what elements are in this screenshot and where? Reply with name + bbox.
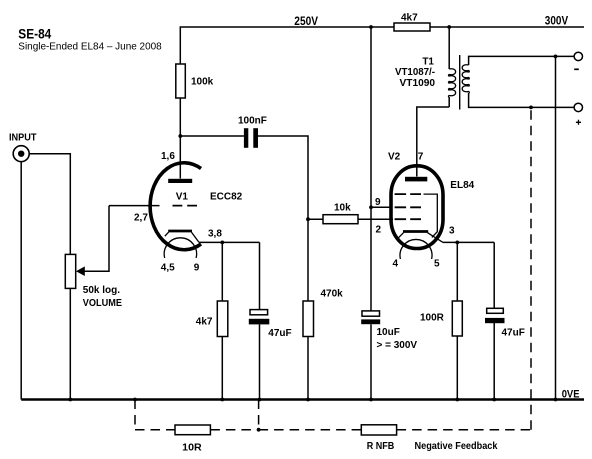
svg-text:VOLUME: VOLUME (83, 298, 122, 309)
svg-text:100k: 100k (191, 77, 214, 88)
svg-text:> = 300V: > = 300V (377, 340, 418, 351)
svg-text:47uF: 47uF (502, 327, 525, 338)
svg-text:100nF: 100nF (238, 115, 267, 126)
svg-text:47uF: 47uF (268, 328, 291, 339)
svg-text:10k: 10k (334, 203, 351, 214)
svg-text:1,6: 1,6 (161, 151, 175, 162)
svg-text:2,7: 2,7 (134, 212, 148, 223)
svg-text:VT1090: VT1090 (400, 78, 436, 89)
svg-text:300V: 300V (545, 14, 568, 28)
svg-text:4: 4 (393, 258, 399, 269)
svg-text:2: 2 (376, 224, 382, 235)
svg-text:3: 3 (449, 225, 455, 236)
svg-text:4k7: 4k7 (401, 13, 418, 24)
svg-text:ECC82: ECC82 (210, 191, 243, 202)
svg-text:R NFB: R NFB (367, 440, 395, 452)
svg-text:50k log.: 50k log. (83, 285, 120, 296)
svg-text:Negative Feedback: Negative Feedback (415, 440, 498, 452)
svg-text:INPUT: INPUT (9, 133, 37, 144)
svg-text:250V: 250V (294, 14, 318, 28)
svg-text:V2: V2 (388, 151, 401, 162)
svg-text:4,5: 4,5 (161, 262, 175, 273)
svg-text:5: 5 (434, 258, 440, 269)
svg-text:100R: 100R (420, 313, 445, 324)
svg-text:7: 7 (418, 151, 424, 162)
svg-text:VT1087/-: VT1087/- (395, 67, 435, 78)
svg-text:0VE: 0VE (562, 388, 580, 400)
svg-text:3,8: 3,8 (208, 229, 222, 240)
svg-text:470k: 470k (321, 289, 344, 300)
svg-text:9: 9 (375, 197, 381, 208)
svg-text:10R: 10R (182, 441, 202, 453)
svg-text:4k7: 4k7 (196, 316, 213, 327)
svg-text:SE-84: SE-84 (18, 26, 51, 42)
svg-text:Single-Ended EL84 – June 2008: Single-Ended EL84 – June 2008 (18, 42, 162, 53)
svg-text:T1: T1 (422, 56, 434, 67)
svg-text:EL84: EL84 (450, 180, 474, 191)
svg-text:V1: V1 (176, 191, 189, 202)
svg-text:10uF: 10uF (377, 327, 400, 338)
svg-text:9: 9 (194, 262, 200, 273)
